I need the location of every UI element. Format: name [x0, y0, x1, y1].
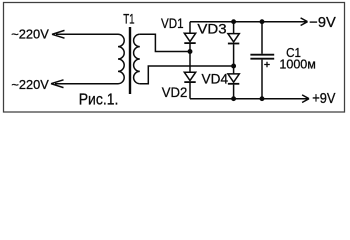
transformer T1 core [129, 27, 131, 94]
frame (decorative border) [4, 3, 345, 113]
svg-text:~220V: ~220V [11, 26, 49, 41]
svg-text:T1: T1 [123, 10, 135, 26]
transformer T1 secondary winding [134, 34, 140, 83]
capacitor C1 polarity plus [264, 62, 270, 68]
wire secondary top lead to node A [140, 34, 190, 51]
wire primary bottom lead [55, 83, 118, 85]
wire primary top lead [56, 33, 118, 35]
svg-text:VD2: VD2 [162, 84, 188, 100]
terminal arrow +9V [296, 95, 309, 103]
junction dot C1 top on -9V rail [260, 19, 265, 24]
node B junction dot (VD3/VD4, AC in) [231, 64, 236, 69]
wire top rail -9V [190, 22, 303, 33]
wire secondary bottom lead to node B [140, 66, 234, 84]
svg-text:+9V: +9V [312, 91, 335, 107]
diode VD2 [189, 52, 191, 73]
svg-text:1000м: 1000м [279, 56, 316, 71]
node A junction dot (VD1/VD2, AC in) [188, 49, 193, 54]
diode VD4 [233, 66, 235, 74]
junction dot C1 bottom on +9V rail [260, 96, 265, 101]
diode VD3 [233, 22, 235, 34]
svg-text:VD4: VD4 [202, 71, 229, 87]
svg-text:~220V: ~220V [11, 77, 49, 92]
terminal arrow ~220V bottom [51, 80, 64, 88]
terminal arrow -9V [295, 18, 308, 26]
capacitor C1 [261, 22, 263, 54]
junction dot VD4 cathode on +9V rail [231, 96, 236, 101]
wire bottom rail +9V [190, 98, 304, 100]
svg-text:−9V: −9V [309, 15, 336, 31]
junction dot VD3 anode on -9V rail [231, 19, 236, 24]
diode VD1 [184, 33, 195, 41]
terminal arrow ~220V top [52, 30, 65, 38]
transformer T1 primary winding [118, 34, 124, 83]
svg-text:VD3: VD3 [197, 20, 226, 36]
svg-text:Рис.1.: Рис.1. [79, 92, 119, 109]
svg-text:VD1: VD1 [161, 15, 184, 31]
